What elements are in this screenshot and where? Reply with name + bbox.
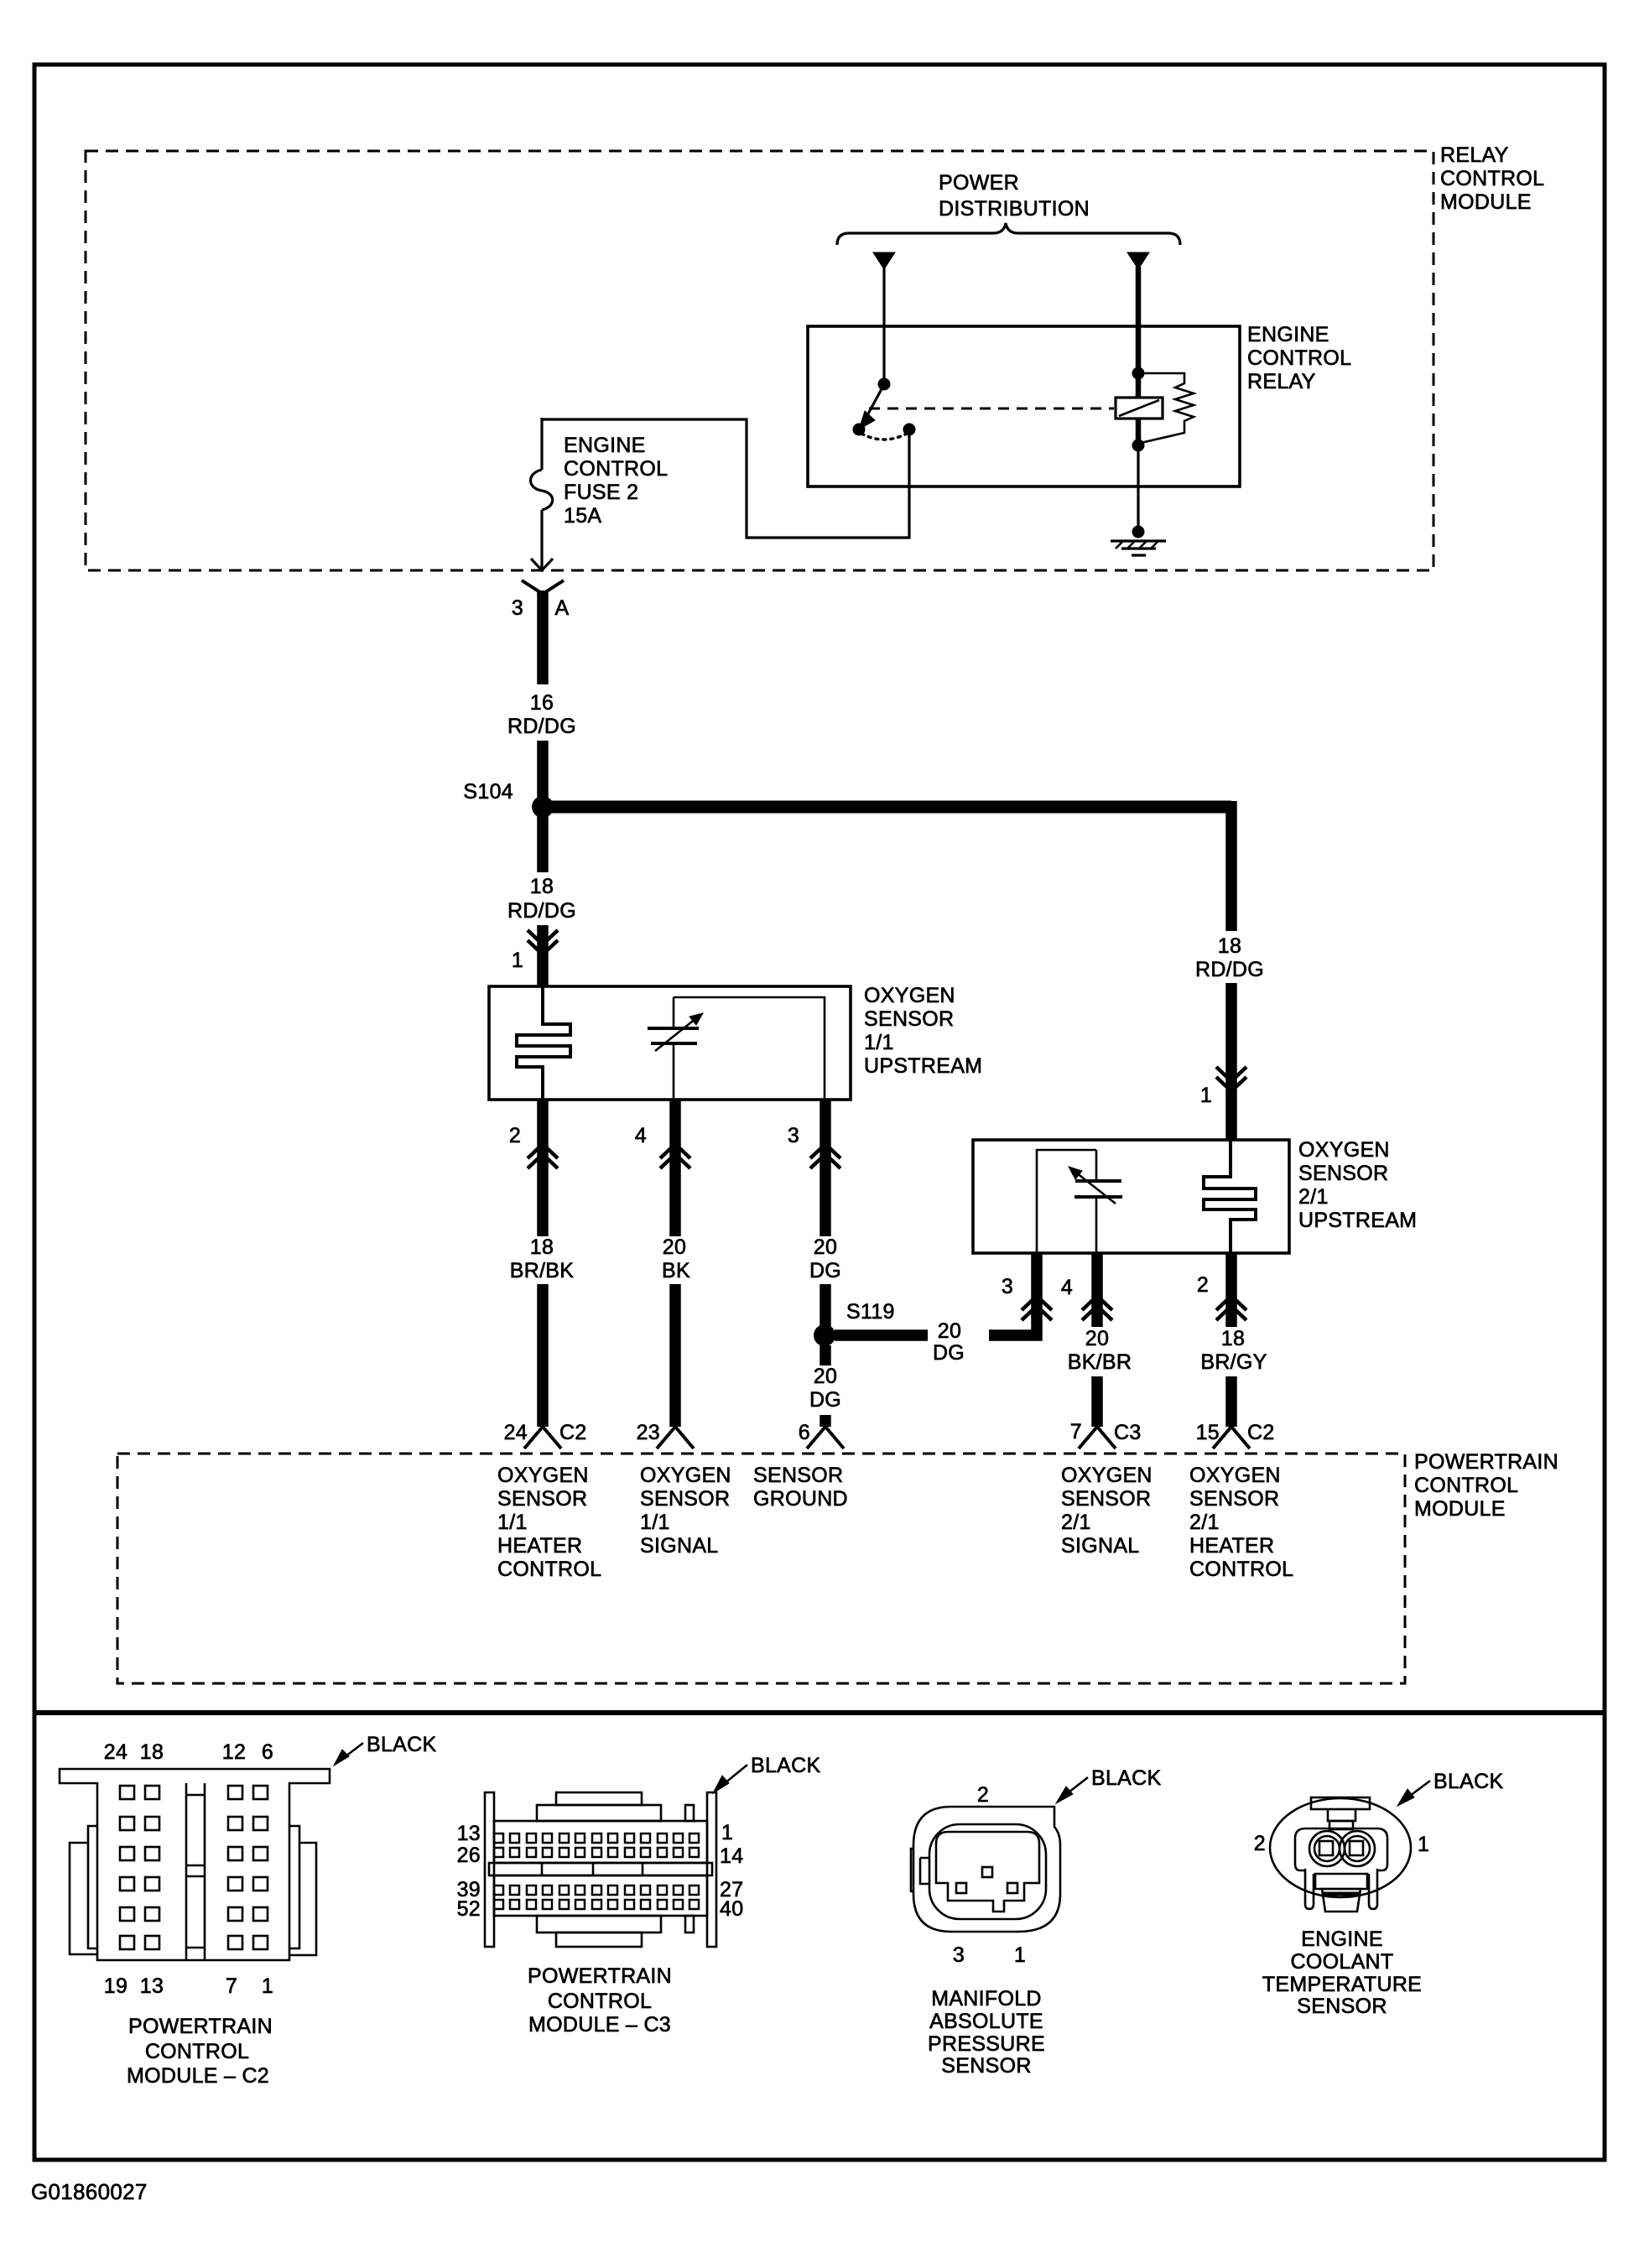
svg-text:4: 4 xyxy=(635,1124,647,1147)
svg-text:12: 12 xyxy=(222,1740,246,1764)
wire 18 RD/DG left xyxy=(507,815,576,986)
svg-text:SENSOR: SENSOR xyxy=(640,1487,730,1511)
svg-text:OXYGEN: OXYGEN xyxy=(1298,1138,1390,1162)
wire 18 BR/BK pin 2 xyxy=(509,1100,574,1427)
svg-text:3: 3 xyxy=(1002,1275,1013,1298)
svg-text:DG: DG xyxy=(809,1388,841,1412)
svg-text:7: 7 xyxy=(1070,1420,1082,1444)
PCM C2 connector body xyxy=(60,1769,330,1960)
svg-text:POWERTRAIN: POWERTRAIN xyxy=(528,1964,672,1988)
wire 20 DG o2 2/1 pin 3 xyxy=(1002,1253,1052,1320)
svg-text:6: 6 xyxy=(799,1421,810,1444)
svg-text:SENSOR: SENSOR xyxy=(1298,1162,1388,1185)
o2 2/1 heater element xyxy=(1204,1140,1256,1253)
connector pin 3 A fork xyxy=(512,580,570,620)
PCM C3 connector black label xyxy=(713,1754,821,1793)
svg-text:BLACK: BLACK xyxy=(367,1733,437,1756)
svg-text:HEATER: HEATER xyxy=(1189,1534,1274,1558)
svg-text:HEATER: HEATER xyxy=(497,1534,582,1558)
svg-text:CONTROL: CONTROL xyxy=(1247,346,1351,370)
PCM C3 connector body xyxy=(485,1792,716,1947)
PCM C2 connector pin numbers top xyxy=(104,1740,273,1764)
svg-text:POWER: POWER xyxy=(939,171,1019,195)
svg-text:16: 16 xyxy=(530,691,554,715)
svg-text:S119: S119 xyxy=(846,1300,895,1324)
o2 1/1 sensing element xyxy=(648,997,703,1100)
svg-text:G01860027: G01860027 xyxy=(31,2179,148,2204)
o2 2/1 sensing element xyxy=(1069,1150,1122,1253)
svg-text:PRESSURE: PRESSURE xyxy=(928,2032,1045,2056)
oxygen sensor 1/1 upstream box xyxy=(489,984,982,1100)
relay coil xyxy=(1116,367,1163,452)
svg-text:DG: DG xyxy=(933,1341,965,1365)
splice S104 xyxy=(463,780,554,818)
power feed right triangle and thick wire xyxy=(1127,252,1149,375)
power distribution label and brace xyxy=(837,171,1180,245)
svg-text:SENSOR: SENSOR xyxy=(1061,1487,1151,1511)
svg-text:18: 18 xyxy=(1218,934,1241,958)
svg-text:CONTROL: CONTROL xyxy=(1440,167,1544,190)
PCM C2 connector pin numbers bottom xyxy=(104,1974,273,1998)
svg-text:2/1: 2/1 xyxy=(1189,1511,1220,1534)
ECT sensor black label xyxy=(1397,1770,1504,1806)
wire 18 BR/GY pin 2 xyxy=(1197,1253,1267,1427)
svg-text:4: 4 xyxy=(1061,1276,1073,1299)
fuse engine control fuse 2 15A xyxy=(531,418,669,570)
svg-text:CONTROL: CONTROL xyxy=(1414,1474,1518,1497)
svg-text:BR/BK: BR/BK xyxy=(510,1259,575,1282)
svg-text:20: 20 xyxy=(814,1365,837,1388)
svg-text:ABSOLUTE: ABSOLUTE xyxy=(929,2010,1043,2033)
svg-text:OXYGEN: OXYGEN xyxy=(864,984,955,1007)
svg-text:15A: 15A xyxy=(564,504,601,528)
svg-text:OXYGEN: OXYGEN xyxy=(1189,1464,1281,1487)
svg-text:26: 26 xyxy=(457,1844,481,1867)
svg-text:CONTROL: CONTROL xyxy=(564,457,668,481)
svg-text:SENSOR: SENSOR xyxy=(1297,1995,1387,2018)
PCM label sensor ground xyxy=(753,1464,848,1511)
power feed left triangle and wire xyxy=(873,252,895,384)
svg-text:MODULE – C2: MODULE – C2 xyxy=(127,2064,269,2088)
PCM pin 7 C3 fork xyxy=(1070,1420,1142,1449)
wire 16 RD/DG xyxy=(507,590,576,798)
oxygen sensor 2/1 upstream box xyxy=(973,1138,1417,1253)
svg-text:1/1: 1/1 xyxy=(864,1031,894,1054)
svg-text:BLACK: BLACK xyxy=(751,1754,821,1777)
ECT sensor caption xyxy=(1262,1927,1422,2018)
svg-text:SENSOR: SENSOR xyxy=(753,1464,843,1487)
svg-text:18: 18 xyxy=(1221,1327,1245,1350)
svg-text:ENGINE: ENGINE xyxy=(1247,323,1329,346)
svg-text:6: 6 xyxy=(262,1740,273,1764)
svg-text:2: 2 xyxy=(509,1124,521,1147)
PCM label oxygen sensor 1/1 signal xyxy=(640,1464,731,1558)
wire S104 to right branch xyxy=(547,801,1231,814)
svg-text:OXYGEN: OXYGEN xyxy=(640,1464,731,1487)
svg-text:2/1: 2/1 xyxy=(1061,1511,1091,1534)
wire 20 DG to PCM pin 6 xyxy=(809,1345,841,1427)
svg-text:7: 7 xyxy=(226,1974,237,1998)
svg-text:20: 20 xyxy=(1085,1327,1109,1350)
svg-text:1/1: 1/1 xyxy=(640,1511,670,1534)
svg-text:MODULE – C3: MODULE – C3 xyxy=(528,2013,671,2037)
svg-text:SIGNAL: SIGNAL xyxy=(1061,1534,1140,1558)
svg-text:UPSTREAM: UPSTREAM xyxy=(864,1054,982,1078)
PCM label oxygen sensor 2/1 signal xyxy=(1061,1464,1153,1558)
svg-text:1: 1 xyxy=(1200,1084,1212,1107)
svg-text:GROUND: GROUND xyxy=(753,1487,848,1511)
svg-text:CONTROL: CONTROL xyxy=(1189,1558,1293,1581)
svg-text:CONTROL: CONTROL xyxy=(548,1990,652,2013)
svg-text:SENSOR: SENSOR xyxy=(941,2054,1031,2078)
PCM C3 connector pins xyxy=(494,1834,699,1909)
PCM pin 6 fork xyxy=(799,1421,844,1449)
powertrain control module dashed box xyxy=(117,1450,1558,1683)
svg-text:1: 1 xyxy=(262,1974,273,1998)
svg-text:POWERTRAIN: POWERTRAIN xyxy=(128,2015,273,2038)
PCM C2 connector black label xyxy=(334,1733,437,1766)
PCM C2 caption xyxy=(127,2015,273,2088)
svg-text:RELAY: RELAY xyxy=(1440,143,1509,167)
svg-text:MANIFOLD: MANIFOLD xyxy=(931,1987,1042,2011)
svg-text:BK/BR: BK/BR xyxy=(1068,1350,1132,1374)
wire 18 RD/DG right branch xyxy=(1195,934,1264,1140)
relay control module dashed box xyxy=(86,143,1544,570)
svg-text:BLACK: BLACK xyxy=(1433,1770,1504,1793)
svg-text:UPSTREAM: UPSTREAM xyxy=(1298,1209,1417,1232)
MAP sensor connector xyxy=(911,1783,1060,1967)
PCM pin 15 C2 fork xyxy=(1196,1421,1275,1449)
svg-text:13: 13 xyxy=(140,1974,164,1998)
svg-text:RD/DG: RD/DG xyxy=(1195,958,1264,981)
ECT sensor connector xyxy=(1254,1797,1429,1912)
svg-text:19: 19 xyxy=(104,1974,127,1998)
PCM label oxygen sensor 2/1 heater control xyxy=(1189,1464,1293,1581)
svg-text:RD/DG: RD/DG xyxy=(507,899,576,923)
svg-text:20: 20 xyxy=(663,1235,686,1259)
svg-text:52: 52 xyxy=(457,1897,481,1921)
ground xyxy=(1111,526,1166,556)
svg-text:BK: BK xyxy=(662,1259,690,1282)
svg-text:RD/DG: RD/DG xyxy=(507,715,576,738)
relay actuation dashed link xyxy=(869,408,1114,410)
relay ground wire xyxy=(1137,445,1139,532)
svg-text:SIGNAL: SIGNAL xyxy=(640,1534,719,1558)
svg-text:C3: C3 xyxy=(1114,1421,1142,1444)
svg-text:S104: S104 xyxy=(463,780,513,804)
svg-text:OXYGEN: OXYGEN xyxy=(1061,1464,1153,1487)
svg-text:SENSOR: SENSOR xyxy=(1189,1487,1279,1511)
PCM pin 23 fork xyxy=(637,1421,694,1449)
svg-text:18: 18 xyxy=(530,875,554,898)
svg-text:1: 1 xyxy=(721,1821,733,1844)
svg-text:2: 2 xyxy=(1254,1832,1266,1855)
svg-text:CONTROL: CONTROL xyxy=(145,2040,249,2063)
svg-text:C2: C2 xyxy=(559,1421,587,1444)
wire from switch to fuse xyxy=(542,419,909,538)
svg-text:MODULE: MODULE xyxy=(1414,1497,1506,1521)
MAP sensor caption xyxy=(928,1987,1045,2078)
svg-text:COOLANT: COOLANT xyxy=(1291,1950,1394,1974)
svg-text:POWERTRAIN: POWERTRAIN xyxy=(1414,1450,1558,1474)
svg-text:3: 3 xyxy=(788,1124,799,1147)
svg-text:24: 24 xyxy=(504,1421,528,1444)
relay switch xyxy=(853,378,916,440)
svg-text:2: 2 xyxy=(977,1783,989,1807)
svg-text:3: 3 xyxy=(512,596,523,620)
svg-text:24: 24 xyxy=(104,1740,127,1764)
svg-text:SENSOR: SENSOR xyxy=(864,1007,954,1031)
svg-text:1/1: 1/1 xyxy=(497,1511,528,1534)
svg-text:OXYGEN: OXYGEN xyxy=(497,1464,589,1487)
svg-text:14: 14 xyxy=(720,1844,743,1868)
svg-text:15: 15 xyxy=(1196,1421,1220,1444)
wire S119 to o2 2/1 with 20 DG label xyxy=(835,1313,1037,1365)
svg-text:1: 1 xyxy=(1014,1943,1026,1967)
engine control relay box xyxy=(808,323,1351,486)
PCM C3 caption xyxy=(528,1964,672,2037)
splice S119 xyxy=(814,1300,895,1346)
o2 1/1 heater element xyxy=(517,986,570,1100)
svg-text:20: 20 xyxy=(938,1319,961,1343)
PCM label oxygen sensor 1/1 heater control xyxy=(497,1464,601,1581)
svg-text:C2: C2 xyxy=(1247,1421,1275,1444)
svg-text:13: 13 xyxy=(457,1822,481,1845)
svg-text:BLACK: BLACK xyxy=(1091,1766,1162,1790)
svg-text:RELAY: RELAY xyxy=(1247,370,1316,393)
svg-text:CONTROL: CONTROL xyxy=(497,1558,601,1581)
PCM C3 connector pin numbers xyxy=(457,1821,744,1921)
svg-text:20: 20 xyxy=(814,1235,837,1259)
PCM C2 connector pins xyxy=(120,1786,268,1949)
svg-text:SENSOR: SENSOR xyxy=(497,1487,587,1511)
wire 20 DG pin 3 xyxy=(788,1100,841,1335)
svg-text:40: 40 xyxy=(720,1897,743,1921)
svg-text:A: A xyxy=(555,596,570,620)
svg-text:1: 1 xyxy=(512,949,523,972)
svg-text:1: 1 xyxy=(1418,1833,1429,1856)
svg-text:BR/GY: BR/GY xyxy=(1200,1350,1267,1374)
wire 20 BK/BR pin 4 xyxy=(1061,1253,1132,1427)
svg-text:23: 23 xyxy=(637,1421,660,1444)
svg-text:2/1: 2/1 xyxy=(1298,1185,1329,1209)
svg-text:ENGINE: ENGINE xyxy=(1301,1927,1383,1951)
svg-text:TEMPERATURE: TEMPERATURE xyxy=(1262,1973,1422,1996)
PCM pin 24 C2 fork xyxy=(504,1421,587,1449)
svg-text:ENGINE: ENGINE xyxy=(564,434,646,457)
svg-text:18: 18 xyxy=(530,1235,554,1259)
svg-text:3: 3 xyxy=(953,1943,965,1967)
svg-text:DG: DG xyxy=(809,1259,841,1282)
MAP sensor black label xyxy=(1056,1766,1162,1803)
svg-text:DISTRIBUTION: DISTRIBUTION xyxy=(939,197,1090,221)
relay coil resistor xyxy=(1138,373,1194,443)
svg-text:18: 18 xyxy=(140,1740,164,1764)
wire 20 BK pin 4 xyxy=(635,1100,690,1427)
svg-text:FUSE 2: FUSE 2 xyxy=(564,481,638,504)
svg-text:MODULE: MODULE xyxy=(1440,190,1532,214)
svg-text:2: 2 xyxy=(1197,1273,1209,1297)
